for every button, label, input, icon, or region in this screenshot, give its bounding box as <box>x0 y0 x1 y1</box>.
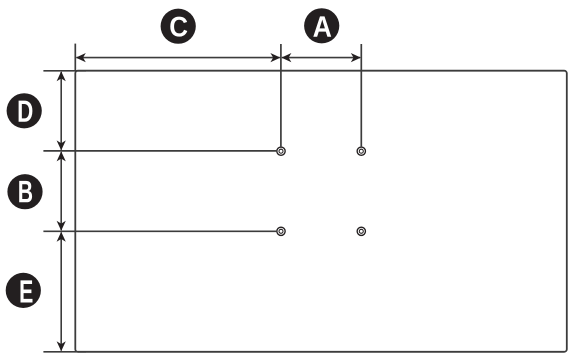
hole top-right <box>357 147 365 155</box>
dimension E arrow (vertical, hole row 2 to plate bottom) <box>57 232 66 351</box>
extension line: plate bottom edge extended left <box>43 351 86 353</box>
extension line: top-left hole column up <box>280 44 282 146</box>
label E <box>6 273 41 308</box>
label A <box>304 8 339 43</box>
hole bottom-left <box>277 227 285 235</box>
hole bottom-right <box>357 227 365 235</box>
dimension C arrow (horizontal, between plate left edge and hole column 1) <box>76 53 281 62</box>
extension line: hole row 2 extended left <box>43 230 276 232</box>
label D <box>7 93 42 128</box>
dimension A arrow (horizontal, between hole columns) <box>281 53 360 62</box>
dimension D arrow (vertical, plate top to hole row 1) <box>57 71 66 150</box>
extension line: top-right hole column up <box>360 44 362 146</box>
label C <box>161 9 196 44</box>
hole top-left <box>277 147 285 155</box>
extension line: plate left edge extended up <box>74 44 76 71</box>
extension line: plate top edge extended left <box>43 70 86 72</box>
label B <box>7 174 42 209</box>
dimension B arrow (vertical, hole row 1 to hole row 2) <box>57 151 66 230</box>
extension line: hole row 1 extended left <box>43 150 276 152</box>
plate outline <box>75 71 567 352</box>
